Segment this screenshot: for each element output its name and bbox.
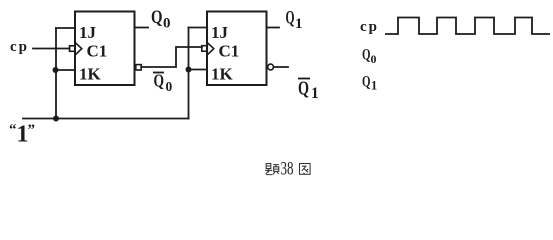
svg-text:0: 0 [371,52,377,66]
U1 Qbar polarity square [136,65,141,70]
U1 clock polarity square [70,46,76,52]
svg-text:Q: Q [154,71,165,91]
wire U1 Q output [135,27,149,29]
svg-text:Q: Q [362,74,371,91]
svg-text:cp: cp [360,19,379,35]
svg-text:1J: 1J [79,23,97,42]
wire U1 1J input [56,27,75,29]
U2 clock dynamic triangle [208,43,214,55]
label Q1 timing [362,74,377,93]
svg-text:Q: Q [286,8,295,29]
wire riser from bus to U2 J [188,28,190,119]
svg-text:Q: Q [362,47,371,64]
svg-text:Q: Q [298,78,309,100]
wire cp input [33,48,70,50]
label Q0 timing [362,47,377,67]
node junction U2 K tap [186,67,192,73]
wire U1 Qbar to U2 clock [141,47,202,67]
wire riser from bus to U1 J [55,28,57,119]
svg-text:1: 1 [295,16,303,32]
svg-text:1: 1 [371,79,377,93]
label Q0bar output [153,71,173,95]
wire U1 1K input [56,69,75,71]
flip-flop U2 box [207,12,267,86]
wire U2 Qbar stub [274,66,289,68]
U2 Qbar polarity bubble [268,64,274,70]
svg-text:Q: Q [151,7,163,28]
node junction U1 K tap [53,67,59,73]
node junction bus riser1 [53,116,59,122]
svg-text:C1: C1 [87,42,108,61]
label Q1 output [286,8,303,33]
flip-flop U1 box [75,12,135,86]
svg-text:1: 1 [311,85,319,102]
svg-text:1K: 1K [211,65,234,84]
svg-text:”: ” [28,122,36,138]
svg-text:0: 0 [163,16,171,32]
svg-text:0: 0 [166,79,173,94]
label Q0 output [151,7,171,32]
waveform cp clock [385,18,550,35]
caption hanzi tu (图) drawn strokes [300,164,311,175]
label Q1bar output [298,78,319,103]
caption hanzi ti (题) drawn strokes [265,164,279,175]
wire U2 1K input [189,69,208,71]
svg-text:38: 38 [281,159,294,180]
U1 clock dynamic triangle [76,43,82,55]
svg-text:1K: 1K [79,65,102,84]
wire logic-1 bus [23,118,189,120]
wire U2 Q output [267,27,280,29]
svg-text:1J: 1J [211,23,229,42]
svg-text:C1: C1 [219,42,240,61]
label "1" source [9,122,35,148]
U2 clock polarity square [202,46,208,52]
svg-text:cp: cp [10,39,29,55]
wire U2 1J input [189,27,208,29]
